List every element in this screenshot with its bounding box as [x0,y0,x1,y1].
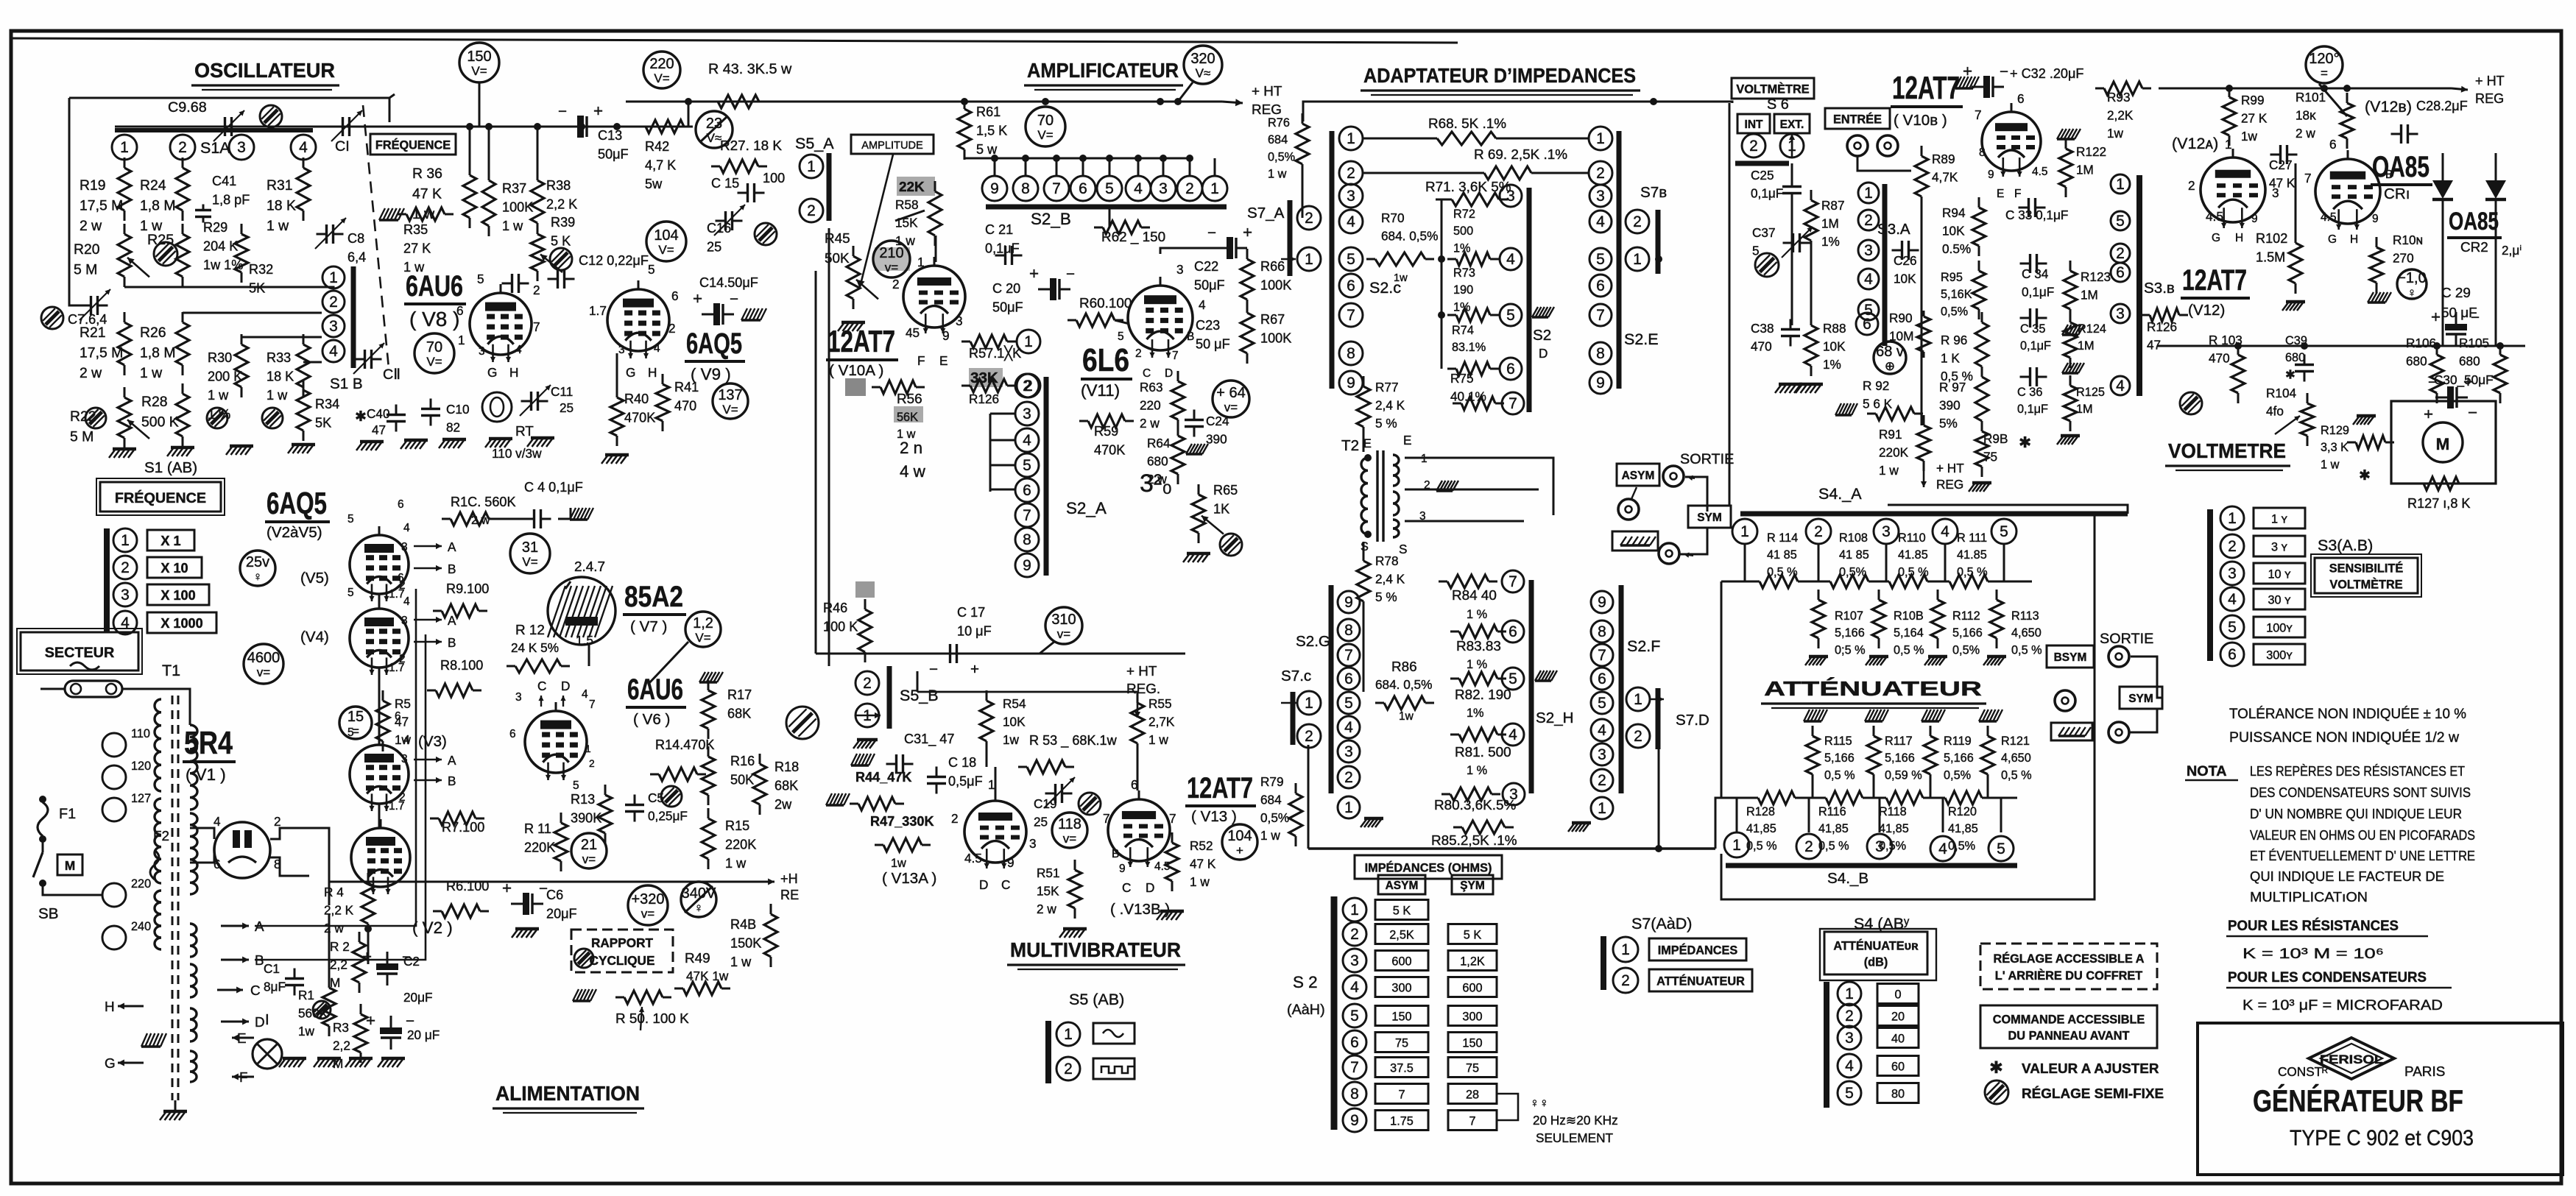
node 5 S3A [1858,300,1879,320]
svg-text:R74: R74 [1452,324,1474,337]
wire tube column V4V3 [378,668,381,745]
node 5 S4B [1989,836,2014,861]
svg-text:R79: R79 [1260,774,1284,789]
switch S2D bar [1527,188,1532,412]
svg-text:3: 3 [956,314,963,328]
svg-text:S: S [1399,542,1407,556]
svg-text:+: + [593,102,603,120]
svg-text:5,166: 5,166 [1824,751,1855,765]
svg-text:25: 25 [707,240,721,255]
svg-text:(V12ʙ): (V12ʙ) [2365,98,2412,116]
svg-text:4: 4 [1864,271,1873,288]
svg-text:110 v/3w: 110 v/3w [492,446,542,461]
svg-text:S7.D: S7.D [1676,712,1709,729]
value box SYM 600 [1448,977,1497,997]
svg-text:RE: RE [780,888,799,902]
svg-text:2 w: 2 w [1037,902,1056,916]
svg-text:5: 5 [477,272,484,286]
svg-text:C 29: C 29 [2441,286,2471,301]
svg-text:R 4: R 4 [324,885,344,899]
svg-text:ENTRÉE: ENTRÉE [1833,112,1882,126]
label FREQUENCE box [370,134,456,155]
svg-text:R 53 _ 68K.1w: R 53 _ 68K.1w [1029,733,1118,749]
svg-text:30 ʏ: 30 ʏ [2268,593,2291,606]
svg-text:S1 (AB): S1 (AB) [144,459,197,476]
node 1 S7A [1297,247,1321,271]
svg-text:1ᴡ: 1ᴡ [2107,126,2124,141]
svg-text:684: 684 [1268,133,1288,146]
node 5 S2E [1589,248,1612,270]
svg-text:390: 390 [1939,397,1961,412]
svg-text:2: 2 [668,321,676,336]
svg-text:83.1%: 83.1% [1452,341,1486,354]
wire tube column V3V2 [378,804,381,828]
svg-text:2 w: 2 w [1140,416,1160,431]
node 4 S4A [1933,519,1958,544]
svg-text:5,166: 5,166 [1944,751,1974,765]
node 9 S2C [1339,371,1363,394]
svg-text:1 K: 1 K [1941,350,1960,365]
svg-text:470: 470 [674,399,696,414]
capacitor C6 [511,903,523,905]
svg-text:3: 3 [618,344,625,356]
svg-text:7: 7 [1596,307,1605,324]
voltage circle 21V [571,833,607,868]
svg-text:3: 3 [2228,565,2237,582]
svg-text:1: 1 [988,777,995,792]
svg-text:5 K: 5 K [1464,928,1482,941]
node 2 S7 attenuateur [1613,968,1638,993]
node 1 S6 [1780,134,1804,158]
svg-text:C 33 0,1μF: C 33 0,1μF [2005,208,2068,222]
svg-text:RÉGLAGE ACCESSIBLE A: RÉGLAGE ACCESSIBLE A [1993,952,2144,966]
value box ASYM 150 [1375,1006,1428,1026]
svg-text:390: 390 [1206,431,1227,446]
svg-text:50 μF: 50 μF [1196,337,1230,352]
svg-text:R 43. 3K.5 w: R 43. 3K.5 w [708,61,792,77]
svg-text:C25: C25 [1751,168,1774,183]
svg-text:R49: R49 [685,951,710,966]
svg-text:47: 47 [372,422,386,437]
svg-text:4: 4 [1199,297,1206,312]
svg-text:47 K: 47 K [1190,856,1216,871]
svg-text:104: 104 [1227,828,1252,844]
node 1 S5A [800,155,823,178]
svg-text:56K: 56K [897,411,918,424]
svg-text:5: 5 [1864,302,1873,319]
svg-text:684. 0,5%: 684. 0,5% [1375,677,1432,692]
svg-text:V≈: V≈ [1196,66,1211,80]
logo FERISOL [2309,1038,2394,1079]
svg-text:R78: R78 [1375,553,1399,568]
svg-text:R76: R76 [1268,116,1290,130]
svg-text:5 %: 5 % [1375,416,1397,431]
hatch row attenuator 2 [1804,720,1821,722]
label AMPLITUDE [851,135,934,154]
node 5 S2 impedance [1343,1004,1366,1027]
wire attenuator left vertical [1721,581,1723,798]
svg-text:1 w: 1 w [1268,168,1287,181]
svg-text:R101: R101 [2296,90,2326,105]
ground row oscillator [113,447,136,451]
node 7 S2C [1339,303,1363,327]
node 2 S2G [1338,766,1360,788]
bracket 20Hz-20KHz [1497,1094,1518,1120]
label reglage semi-fixe [1985,1080,2008,1104]
svg-text:8: 8 [1979,146,1986,159]
primary tap 127 [102,798,126,821]
svg-text:1w: 1w [395,732,412,747]
svg-text:9: 9 [1344,594,1353,611]
svg-text:4fo: 4fo [2266,403,2284,418]
svg-text:6AU6: 6AU6 [406,270,463,302]
svg-text:1 w: 1 w [267,218,289,234]
svg-text:2: 2 [589,758,595,769]
svg-text:7: 7 [1344,647,1353,664]
node 1 S5B [855,704,879,727]
wire S2A links [989,414,992,492]
svg-text:118: 118 [1058,816,1081,832]
wire V7 cathode [588,645,590,666]
svg-text:−: − [730,291,738,308]
svg-text:R4B: R4B [730,917,756,932]
wire 6L6 plate to C22 [1160,248,1215,254]
svg-text:3: 3 [1882,523,1891,540]
node 2 S7B [1626,210,1649,233]
voltage circle 1,0 [2397,269,2427,299]
value box SYM 300 [1448,1006,1497,1026]
node 2 S3A [1858,210,1879,230]
switch S4 list bar [1824,982,1829,1108]
svg-text:1: 1 [585,743,591,754]
svg-text:2: 2 [1347,165,1355,182]
voltage circle 137V [713,383,748,419]
svg-text:1: 1 [1305,251,1313,268]
svg-text:3: 3 [1845,1030,1854,1047]
svg-text:C 4 0,1μF: C 4 0,1μF [524,480,583,495]
svg-text:7: 7 [1169,811,1176,826]
svg-text:D: D [979,877,988,892]
svg-text:41,85: 41,85 [1818,822,1849,835]
node 3 S2D [1500,185,1522,207]
junction dots bus amp [685,98,692,105]
svg-text:3: 3 [1596,188,1605,205]
svg-text:600: 600 [1462,981,1482,994]
svg-text:4: 4 [1344,719,1353,736]
switch S2A bar [1044,377,1049,576]
svg-text:R30: R30 [208,350,232,365]
svg-text:1 w: 1 w [1260,828,1280,843]
wire R54 to R53 [986,741,988,767]
node 2 S5A [800,199,823,222]
svg-text:−: − [558,103,567,120]
svg-text:8: 8 [1023,531,1031,548]
svg-text:1: 1 [1598,800,1606,817]
node 1 S3B [2111,174,2130,194]
svg-text:0,25μF: 0,25μF [648,808,688,823]
svg-text:9: 9 [1988,169,1994,181]
svg-text:2 w: 2 w [324,921,344,935]
wire T2 to S2G [1363,605,1365,692]
value box SYM 28 [1448,1084,1497,1104]
svg-text:R104: R104 [2266,386,2297,400]
svg-text:1: 1 [1596,130,1605,147]
svg-text:SECTEUR: SECTEUR [45,645,115,661]
svg-text:40: 40 [1891,1032,1905,1045]
svg-text:v=: v= [582,852,596,866]
svg-text:POUR LES CONDENSATEURS: POUR LES CONDENSATEURS [2228,969,2427,986]
svg-text:S2_H: S2_H [1536,710,1574,726]
capacitor C3 [390,1016,392,1027]
svg-text:C: C [1143,367,1151,380]
svg-text:C10: C10 [446,402,470,417]
svg-text:( V13A ): ( V13A ) [882,870,936,887]
node 5 S4 dB 80 [1838,1081,1861,1105]
svg-text:−: − [2471,309,2480,326]
svg-text:3: 3 [2116,305,2125,322]
svg-text:R70: R70 [1381,210,1405,225]
svg-text:( V7 ): ( V7 ) [630,618,667,635]
node 2 S7A [1297,206,1321,230]
voltage circle 340V crossed [681,882,716,917]
svg-text:F1: F1 [59,806,76,822]
wire V1 plate to filter [309,828,329,905]
svg-text:✱: ✱ [2359,468,2371,484]
voltage circle 120V [2306,46,2343,83]
svg-text:R7.100: R7.100 [442,820,484,835]
svg-text:4: 4 [515,344,522,356]
svg-text:2,2 K: 2,2 K [546,197,577,212]
wire PSU B+ rail [368,881,626,883]
voltage circle 23V crossed [696,111,733,148]
svg-text:C 21: C 21 [985,222,1013,237]
svg-text:9: 9 [1023,557,1031,574]
node 5 S2A [1015,453,1039,477]
node 2 S5 square [1056,1057,1080,1080]
svg-text:VALEUR A AJUSTER: VALEUR A AJUSTER [2022,1061,2159,1077]
svg-text:(AàH): (AàH) [1287,1002,1325,1018]
svg-text:R89: R89 [1932,152,1955,166]
node 3 S2E [1589,185,1612,207]
svg-text:1: 1 [1024,333,1033,350]
tube V3 6AQ5 [350,745,409,804]
svg-text:( V1 ): ( V1 ) [186,765,226,784]
svg-text:6: 6 [1344,670,1353,687]
svg-text:R94: R94 [1942,205,1966,220]
wire CR2 down [2495,236,2497,346]
svg-text:S4._B: S4._B [1827,870,1869,887]
node 6 S2F [1591,668,1613,690]
svg-text:R64: R64 [1147,436,1171,450]
svg-text:R60.100: R60.100 [1079,296,1132,311]
svg-text:1.5: 1.5 [576,633,593,648]
label M box [57,854,82,875]
dashed mechanical link [363,105,389,368]
svg-text:R17: R17 [727,687,752,702]
svg-text:G: G [487,365,497,380]
svg-text:F: F [917,353,925,368]
svg-text:R35: R35 [403,222,428,237]
svg-text:5 6 K: 5 6 K [1863,396,1893,411]
node 7 S2 impedance [1343,1055,1366,1079]
svg-text:1w: 1w [1394,272,1408,284]
svg-text:+320: +320 [631,891,664,907]
svg-text:C 18: C 18 [948,755,976,770]
svg-text:R125: R125 [2076,386,2105,399]
svg-text:C41: C41 [212,174,236,188]
tube V13A [964,801,1026,863]
svg-text:( V6 ): ( V6 ) [633,711,670,728]
svg-text:D' UN NOMBRE QUI INDIQUE L: D' UN NOMBRE QUI INDIQUE LEUR [2250,807,2462,822]
svg-text:1%: 1% [1467,707,1484,720]
svg-text:1.75: 1.75 [1390,1114,1414,1128]
svg-text:C2: C2 [403,954,420,969]
svg-text:2: 2 [1749,138,1758,155]
svg-text:R117: R117 [1885,735,1913,748]
node 1 S1B [322,266,345,289]
svg-text:C: C [1001,877,1010,892]
svg-text:R73: R73 [1453,266,1475,280]
svg-text:R8.100: R8.100 [440,658,483,673]
svg-text:1: 1 [1633,251,1642,268]
svg-text:4: 4 [329,343,338,360]
svg-text:9: 9 [1007,855,1014,870]
svg-text:PARIS: PARIS [2404,1064,2445,1080]
svg-text:C24: C24 [1206,414,1229,428]
svg-text:6: 6 [1596,277,1605,294]
node 1 S7 impedances [1613,937,1638,962]
svg-text:C1: C1 [264,961,280,976]
svg-text:0: 0 [1894,988,1901,1001]
svg-text:R39: R39 [551,215,575,230]
node 3 S4A [1874,519,1899,544]
svg-text:3²₀: 3²₀ [1140,470,1172,498]
svg-text:2: 2 [1633,213,1642,230]
svg-text:R21: R21 [80,325,106,341]
resistor R120 [1936,797,1945,799]
svg-text:V=: V= [471,64,487,78]
svg-text:S2.G: S2.G [1296,633,1330,650]
input terminal 1 [1847,135,1868,156]
node 4 S2G [1338,716,1360,738]
svg-text:150: 150 [1391,1010,1411,1023]
svg-text:4: 4 [1938,841,1947,857]
svg-text:9: 9 [990,180,999,197]
pins A B V5 [414,545,442,548]
svg-text:C8: C8 [347,231,364,246]
svg-text:680: 680 [1147,453,1168,468]
svg-text:6: 6 [398,498,404,511]
svg-text:0,5%: 0,5% [1268,150,1295,163]
svg-text:2: 2 [1596,165,1605,182]
wire C27 to R102 [2295,163,2297,243]
svg-text:S7(AàD): S7(AàD) [1631,915,1692,933]
label commande panneau [1980,1005,2157,1048]
svg-text:7: 7 [1347,307,1355,324]
node 8 S2F [1591,620,1613,643]
svg-text:R112: R112 [1952,609,1980,623]
svg-text:R71. 3,6K 5%: R71. 3,6K 5% [1425,180,1511,195]
tube V9 6AQ5 [607,289,669,351]
wire amp sub-bus [964,158,1190,160]
svg-text:1 w: 1 w [730,955,752,969]
svg-text:R107: R107 [1835,609,1863,623]
svg-text:4.5: 4.5 [2032,166,2048,178]
svg-text:R1: R1 [298,988,314,1002]
svg-text:OA85: OA85 [2372,151,2429,183]
svg-text:1w: 1w [1399,710,1414,723]
wire R55 to V13B [1137,754,1139,790]
svg-text:R66: R66 [1260,259,1285,274]
svg-text:+ HT: + HT [2475,74,2505,88]
svg-text:REG.: REG. [1126,682,1160,697]
svg-text:R102: R102 [2256,231,2287,246]
svg-text:CⅡ: CⅡ [383,367,400,383]
rectifier tube V1 [214,822,270,878]
svg-text:X 1: X 1 [160,534,180,548]
node 1 S2E top [1589,127,1612,150]
svg-text:20μF: 20μF [546,907,577,921]
svg-text:0,5 %: 0,5 % [1824,768,1855,782]
svg-text:R 50. 100 K: R 50. 100 K [615,1011,689,1027]
svg-text:R87: R87 [1821,198,1845,213]
svg-text:B: B [448,562,456,576]
svg-text:R40: R40 [624,392,649,406]
svg-text:C5: C5 [648,790,664,805]
svg-text:2,5K: 2,5K [1389,928,1414,941]
svg-text:( V10ʙ ): ( V10ʙ ) [1894,112,1947,129]
svg-text:R5: R5 [395,696,411,711]
svg-text:ВSYM: ВSYM [2054,651,2087,664]
tube V4 6AQ5 [350,609,409,668]
thermistor RT [482,392,512,422]
svg-text:R85.2,5K .1%: R85.2,5K .1% [1431,833,1517,849]
svg-text:v=: v= [1224,400,1238,414]
wire CR1 down [2442,236,2444,346]
svg-text:2: 2 [1305,210,1313,227]
svg-text:4: 4 [1506,251,1515,268]
svg-text:5: 5 [1598,695,1606,712]
label RAPPORT CYCLIQUE [571,930,673,972]
tube V10A [903,266,965,328]
svg-text:300: 300 [1462,1010,1482,1023]
svg-text:+ HT: + HT [1252,84,1282,99]
node 1 S2G [1338,796,1360,818]
svg-text:R63: R63 [1140,380,1163,394]
node 5 S2B [1097,176,1122,201]
svg-text:R25: R25 [147,232,174,248]
node 3 S2 impedance [1343,949,1366,972]
svg-text:R44_47K: R44_47K [855,770,911,785]
svg-text:R67: R67 [1260,312,1285,327]
svg-text:R47_330K: R47_330K [870,814,934,829]
svg-text:5: 5 [1350,1008,1359,1025]
svg-text:DES CONDENSATEURS SONT SUIV: DES CONDENSATEURS SONT SUIVIS [2250,785,2471,801]
svg-text:V=: V= [522,555,537,569]
svg-text:S5_A: S5_A [795,135,834,152]
svg-text:1 %: 1 % [1467,764,1487,777]
svg-text:100ʏ: 100ʏ [2266,621,2293,634]
svg-text:R113: R113 [2011,609,2039,623]
svg-text:SEULEMENT: SEULEMENT [1536,1130,1614,1145]
node 4 S2F [1591,719,1613,741]
svg-text:20: 20 [1891,1010,1905,1023]
svg-text:1 w: 1 w [267,388,288,403]
node 1 S2F [1591,797,1613,819]
node 5 S4A [1991,519,2016,544]
svg-text:4: 4 [214,814,221,829]
ground row PSU [283,1057,306,1061]
